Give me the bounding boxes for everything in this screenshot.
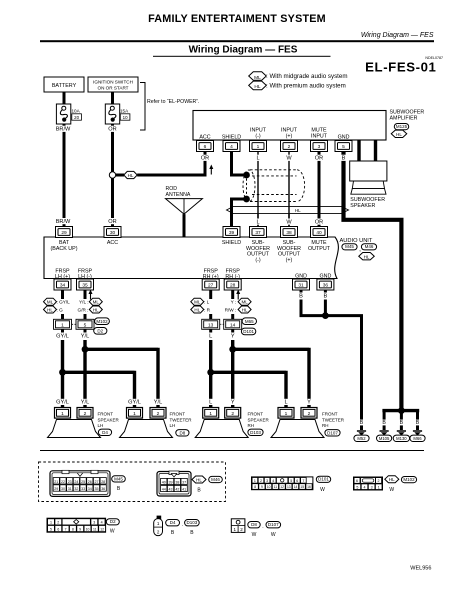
front speaker RH body: [195, 420, 248, 438]
svg-text:24: 24: [74, 480, 78, 484]
battery box: [44, 77, 84, 92]
svg-text:OR: OR: [201, 156, 209, 162]
gnd trunk branch bar: [384, 411, 417, 413]
svg-text:7: 7: [65, 527, 67, 531]
wire gnd to M52: [325, 314, 361, 430]
svg-text:LH: LH: [98, 423, 104, 428]
svg-text:RH: RH: [322, 423, 329, 428]
oval D8: [176, 430, 189, 436]
audio unit oval M46: [361, 244, 376, 250]
svg-text:R/W :: R/W :: [225, 307, 237, 312]
wire subwoofer speaker feed right: [374, 140, 377, 161]
svg-text:D4: D4: [102, 430, 108, 435]
svg-text:Wiring Diagram — FES: Wiring Diagram — FES: [361, 32, 434, 39]
junction dot Y/L: [82, 346, 89, 353]
svg-text:28: 28: [230, 283, 236, 289]
wire L down: [209, 340, 212, 408]
svg-text:14: 14: [294, 485, 298, 489]
wire branch M130: [400, 412, 403, 430]
wire stub pin 34: [61, 290, 64, 299]
hexagon HL pin27: [191, 306, 204, 313]
svg-text:TWEETER: TWEETER: [170, 417, 193, 422]
svg-text:ANTENNA: ANTENNA: [166, 192, 191, 198]
svg-text:33: 33: [81, 487, 85, 491]
svg-text:OR: OR: [108, 219, 116, 225]
svg-text:ML: ML: [254, 75, 261, 81]
svg-text:40: 40: [162, 480, 166, 484]
svg-text:3: 3: [93, 521, 95, 525]
svg-text:G/R :: G/R :: [78, 307, 89, 312]
svg-text:30: 30: [61, 487, 65, 491]
wire shield through bus: [230, 206, 233, 227]
svg-text:40: 40: [316, 230, 322, 236]
label OR upper: [109, 126, 117, 132]
svg-text:(-): (-): [255, 133, 261, 139]
svg-text:(+): (+): [286, 257, 293, 263]
audio pin 28: [224, 279, 241, 290]
svg-text:HL: HL: [194, 308, 200, 313]
svg-text:31: 31: [68, 487, 72, 491]
hexagon ML pin34: [44, 298, 57, 305]
svg-text:OR: OR: [108, 127, 116, 133]
svg-text:1: 1: [50, 521, 52, 525]
svg-text:31: 31: [298, 283, 304, 289]
svg-text:GND: GND: [338, 134, 350, 140]
svg-text:6: 6: [296, 479, 298, 483]
svg-text:L: L: [256, 156, 259, 162]
ground M52: [357, 430, 366, 432]
svg-text:M125: M125: [396, 124, 408, 129]
label B under amp pin 5: [341, 155, 346, 161]
svg-text:GY/L: GY/L: [128, 400, 141, 406]
audio pin 27: [202, 279, 219, 290]
svg-text:3: 3: [371, 485, 373, 489]
svg-text:Refer to “EL-POWER”.: Refer to “EL-POWER”.: [147, 99, 199, 105]
svg-text:M102: M102: [96, 319, 108, 324]
svg-text:Y/L :: Y/L :: [79, 300, 88, 305]
label L under amp pin 1: [256, 155, 261, 161]
svg-text:M65: M65: [245, 319, 254, 324]
amp pin 2: [281, 141, 298, 152]
shield connection dot lower: [243, 196, 250, 203]
inline connector 13: [202, 319, 220, 329]
dashed shield link: [246, 179, 248, 196]
svg-text:14: 14: [230, 323, 236, 329]
oval M102 inline: [95, 318, 110, 325]
oval D4 legend: [166, 520, 180, 526]
svg-text:38: 38: [175, 480, 179, 484]
amp pin 6: [197, 141, 214, 152]
HL hexagon M46 legend: [192, 476, 206, 483]
wire GY/L down: [61, 340, 64, 408]
svg-text:29: 29: [61, 230, 67, 236]
svg-text:FRONT: FRONT: [248, 412, 264, 417]
label B pin31: [299, 293, 304, 299]
junction dot Y: [229, 346, 236, 353]
label Y: [230, 333, 235, 339]
svg-text:5: 5: [342, 144, 345, 150]
svg-text:BR/W: BR/W: [56, 127, 71, 133]
hexagon HL pin35: [89, 306, 102, 313]
svg-text:M52: M52: [357, 436, 366, 441]
svg-text:ACC: ACC: [199, 134, 210, 140]
svg-text:(-): (-): [255, 257, 261, 263]
svg-text:GY/L: GY/L: [56, 400, 69, 406]
svg-text:(+): (+): [286, 133, 293, 139]
audio pin 39: [223, 227, 240, 238]
svg-text:W: W: [286, 219, 292, 225]
svg-text:EL-FES-01: EL-FES-01: [365, 60, 436, 75]
svg-text:FRONT: FRONT: [322, 412, 338, 417]
HL bus banner: [227, 206, 349, 213]
svg-text:43: 43: [169, 487, 173, 491]
svg-text:4: 4: [230, 144, 233, 150]
svg-text:20: 20: [74, 115, 79, 120]
svg-text:1: 1: [257, 144, 260, 150]
svg-text:37: 37: [255, 230, 261, 236]
oval D107: [325, 430, 340, 436]
svg-text:D101: D101: [318, 477, 329, 482]
rod antenna symbol: [166, 199, 203, 215]
svg-text:26: 26: [88, 480, 92, 484]
junction dot gnd: [322, 312, 329, 319]
svg-text:LH: LH: [170, 423, 176, 428]
svg-text:HL: HL: [396, 132, 402, 137]
dash link 1-5: [72, 323, 76, 325]
svg-text:: With premium audio system: : With premium audio system: [266, 82, 346, 89]
svg-text:FRONT: FRONT: [170, 412, 186, 417]
svg-text:3: 3: [266, 479, 268, 483]
svg-text:2: 2: [157, 411, 160, 417]
audio pin 40: [311, 227, 328, 238]
label B above M130: [399, 420, 404, 426]
wire below connector 13: [209, 329, 212, 332]
junction dot GY/L: [59, 369, 66, 376]
audio unit HL hexagon: [359, 253, 375, 260]
svg-text:AUDIO UNIT: AUDIO UNIT: [340, 238, 373, 244]
svg-text:23: 23: [68, 480, 72, 484]
svg-text:15: 15: [300, 485, 304, 489]
svg-text:D8: D8: [251, 522, 257, 527]
branch GY/L to tweeter: [63, 371, 135, 408]
svg-text:2: 2: [288, 144, 291, 150]
svg-text:6: 6: [204, 144, 207, 150]
amplifier HL hexagon: [391, 130, 407, 137]
label L: [208, 333, 213, 339]
svg-text:OUTPUT: OUTPUT: [308, 246, 331, 252]
audio pin 35: [77, 279, 94, 290]
svg-text:WEL956: WEL956: [410, 566, 431, 572]
svg-text:: GY/L: : GY/L: [57, 300, 71, 305]
svg-text:D101: D101: [243, 329, 254, 334]
connector face D101: [252, 477, 313, 490]
shield cylinder dashes: [243, 170, 305, 202]
front tweeter LH pins: [128, 399, 142, 405]
audio pin 38: [281, 227, 298, 238]
branch Y to tweeter RH: [233, 348, 309, 408]
svg-text:FRONT: FRONT: [98, 412, 114, 417]
svg-text:4: 4: [272, 479, 274, 483]
wire below connector 5: [84, 329, 87, 332]
oval D101 inline: [241, 328, 255, 335]
svg-text:B: B: [382, 420, 386, 426]
svg-text:OR: OR: [315, 156, 323, 162]
HL hexagon on OR branch: [124, 171, 138, 178]
svg-text:35: 35: [82, 283, 88, 289]
svg-text:15A: 15A: [120, 108, 129, 113]
wire L amp pin 1 to audio unit pin 37: [257, 152, 259, 227]
svg-text:B: B: [416, 420, 420, 426]
svg-text:OR: OR: [315, 219, 323, 225]
svg-text:34: 34: [88, 487, 92, 491]
svg-text:1: 1: [133, 411, 136, 417]
svg-text:M66: M66: [413, 436, 422, 441]
svg-text:.: .: [182, 522, 183, 528]
label B above M52: [359, 420, 364, 426]
svg-text:44: 44: [162, 487, 166, 491]
svg-text:29: 29: [54, 487, 58, 491]
label L above pin 37: [256, 219, 261, 225]
svg-text:W: W: [110, 529, 115, 535]
oval D103: [248, 429, 263, 435]
svg-text:M46: M46: [211, 477, 220, 482]
junction circle on OR wire: [109, 172, 115, 178]
connector face D8: [231, 519, 245, 533]
amp pin 4: [223, 141, 240, 152]
svg-text:ML: ML: [241, 300, 248, 305]
svg-text:Y :: Y :: [231, 300, 237, 305]
svg-text:L: L: [209, 400, 212, 406]
wire below connector 1: [61, 329, 64, 332]
svg-text:IGNITION SWITCH: IGNITION SWITCH: [93, 80, 133, 85]
svg-text:HL: HL: [389, 477, 395, 482]
subwoofer speaker symbol: [350, 161, 387, 181]
label OR lower: [109, 218, 117, 224]
svg-text:SHIELD: SHIELD: [222, 134, 241, 140]
arrow up on OR branch: [210, 168, 212, 175]
svg-text:M45: M45: [345, 244, 354, 249]
oval D101 legend: [316, 476, 330, 482]
svg-text:BATTERY: BATTERY: [52, 83, 77, 89]
hexagon ML pin35: [89, 298, 102, 305]
svg-text:Wiring Diagram — FES: Wiring Diagram — FES: [189, 45, 298, 56]
label W under amp pin 2: [287, 155, 292, 161]
wire below connector 14: [231, 329, 234, 332]
header rule: [40, 40, 434, 42]
svg-text:4: 4: [364, 485, 366, 489]
svg-text:36: 36: [101, 487, 105, 491]
wire OR amp pin 3 to audio unit pin 40: [318, 152, 321, 227]
svg-text:BR/W: BR/W: [56, 219, 71, 225]
svg-text:HL: HL: [295, 208, 301, 213]
wire pin28 to connector 14: [231, 314, 234, 320]
audio unit oval M45: [342, 244, 357, 250]
audio pin 31: [293, 279, 310, 290]
label GY/L: [56, 333, 70, 339]
svg-text:10A: 10A: [72, 108, 81, 113]
wire pin35 to connector 5: [84, 314, 87, 320]
svg-text:D4: D4: [170, 520, 176, 525]
svg-text:36: 36: [323, 283, 329, 289]
audio pin 36: [317, 279, 334, 290]
svg-text:AMPLIFIER: AMPLIFIER: [390, 116, 418, 122]
fuse 10A 20: [56, 104, 70, 124]
wire OR junction circle to audio unit pin 30: [111, 178, 114, 226]
svg-text:9: 9: [261, 485, 263, 489]
svg-text:8: 8: [254, 485, 256, 489]
svg-text:Y: Y: [307, 400, 311, 406]
svg-text:B: B: [400, 420, 404, 426]
arrow up beside pin 28: [237, 293, 239, 300]
front speaker LH body: [48, 420, 101, 438]
svg-text:1: 1: [61, 323, 64, 329]
svg-text:L: L: [209, 334, 212, 340]
inline connector 14: [224, 319, 242, 329]
audio pin 29: [56, 227, 73, 238]
svg-text:13: 13: [208, 323, 214, 329]
svg-text:HL: HL: [128, 173, 134, 178]
EL-POWER bracket: [140, 83, 145, 131]
svg-text:1: 1: [285, 411, 288, 417]
wire branch M66: [416, 412, 419, 430]
front tweeter RH body: [271, 420, 324, 438]
label BR/W upper: [56, 126, 70, 132]
svg-text:W: W: [320, 487, 325, 493]
svg-text:6: 6: [57, 527, 59, 531]
svg-text:37: 37: [182, 480, 186, 484]
hexagon ML pin28: [238, 298, 251, 305]
audio pin 30: [104, 227, 121, 238]
svg-text:D103: D103: [187, 520, 198, 525]
wire OR branch circle to HL hexagon: [116, 174, 124, 177]
label B pin36: [323, 293, 328, 299]
svg-text:11: 11: [93, 527, 97, 531]
svg-text:B: B: [299, 294, 303, 300]
svg-text:2: 2: [231, 411, 234, 417]
svg-text:M130: M130: [396, 436, 407, 441]
svg-text:34: 34: [60, 283, 66, 289]
svg-text:TWEETER: TWEETER: [322, 417, 345, 422]
hexagon HL pin34: [44, 306, 57, 313]
oval M45 legend: [112, 476, 126, 482]
ground M130: [397, 430, 406, 432]
svg-text:ML: ML: [47, 300, 54, 305]
svg-text:1: 1: [254, 479, 256, 483]
svg-text:HL: HL: [47, 308, 53, 313]
legend HL hexagon: [249, 81, 267, 90]
ignition switch box: [88, 77, 138, 92]
audio pin 34: [54, 279, 71, 290]
wire pin27 to connector 13: [209, 314, 212, 320]
svg-text:Y/L: Y/L: [154, 400, 162, 406]
svg-text:22: 22: [61, 480, 65, 484]
svg-text:41: 41: [182, 487, 186, 491]
wire ignition to fuse: [111, 92, 114, 104]
svg-text:M46: M46: [365, 244, 374, 249]
svg-text:16: 16: [307, 485, 311, 489]
arrow up beside pin 35: [90, 293, 92, 300]
svg-text:GY/L: GY/L: [56, 334, 69, 340]
svg-text:42: 42: [175, 487, 179, 491]
svg-text:11: 11: [274, 485, 278, 489]
separator rule: [40, 450, 424, 452]
wire B amp pin 5 gnd trunk: [341, 152, 401, 413]
svg-text:5: 5: [290, 479, 292, 483]
connector face M46: [157, 472, 191, 497]
wire shield drain from amp pin 4: [230, 152, 247, 176]
junction dot amp gnd trunk: [398, 407, 405, 414]
wire OR branch to amplifier pin 6: [137, 151, 205, 177]
label BR/W lower: [56, 218, 70, 224]
svg-text:L: L: [284, 400, 287, 406]
label Y/L: [80, 333, 91, 339]
svg-text:M45: M45: [114, 476, 123, 481]
svg-text:3: 3: [318, 144, 321, 150]
wire subwoofer speaker feed left: [357, 140, 360, 161]
wire Y/L down: [83, 340, 86, 408]
label OR above pin 40: [315, 219, 323, 225]
audio pin 37: [250, 227, 267, 238]
svg-text:: R: : R: [204, 307, 211, 312]
svg-text:5: 5: [356, 485, 358, 489]
wire B gnd pin 31: [300, 290, 324, 316]
svg-text:ACC: ACC: [107, 240, 118, 246]
svg-text:B: B: [342, 156, 346, 162]
legend ML hexagon: [249, 72, 267, 81]
svg-text:D103: D103: [250, 430, 261, 435]
svg-text:HL: HL: [364, 254, 370, 259]
wire Y down: [231, 340, 234, 408]
label B above M105: [382, 420, 387, 426]
heading underline: [153, 56, 331, 57]
front speaker LH pins: [56, 399, 70, 405]
svg-text:1: 1: [61, 411, 64, 417]
svg-text:1: 1: [378, 485, 380, 489]
label OR under amp pin 6: [201, 155, 209, 161]
svg-text:SPEAKER: SPEAKER: [98, 417, 120, 422]
svg-text:6: 6: [356, 479, 358, 483]
svg-text:4: 4: [101, 521, 103, 525]
svg-text:.: .: [262, 524, 263, 530]
svg-text:9: 9: [79, 527, 81, 531]
wire stub pin 28: [231, 290, 234, 299]
dash link 13-14: [220, 323, 223, 325]
svg-text:HL: HL: [196, 478, 202, 483]
svg-text:8: 8: [72, 527, 74, 531]
svg-text:W: W: [271, 532, 276, 538]
oval M46 legend: [209, 476, 223, 482]
wire pin34 to connector 1: [61, 314, 64, 320]
svg-text:W: W: [286, 156, 292, 162]
connector face M45: [50, 471, 110, 497]
svg-text:SHIELD: SHIELD: [222, 240, 241, 246]
svg-text:SPEAKER: SPEAKER: [350, 203, 375, 209]
svg-text:39: 39: [229, 230, 235, 236]
svg-text:(BACK UP): (BACK UP): [50, 246, 77, 252]
svg-text:5: 5: [84, 323, 87, 329]
wire W amp pin 2 to audio unit pin 38: [288, 152, 290, 227]
wire antenna to audio unit: [183, 214, 186, 237]
svg-text:12: 12: [280, 485, 284, 489]
svg-text:: With midgrade audio system: : With midgrade audio system: [266, 73, 348, 80]
svg-text:32: 32: [74, 487, 78, 491]
svg-text:Y: Y: [231, 400, 235, 406]
label B above M66: [415, 420, 420, 426]
wire OR through bus: [318, 206, 321, 227]
wire battery to fuse: [63, 92, 66, 104]
svg-text:HL: HL: [93, 308, 99, 313]
label OR under amp pin 3: [315, 155, 323, 161]
